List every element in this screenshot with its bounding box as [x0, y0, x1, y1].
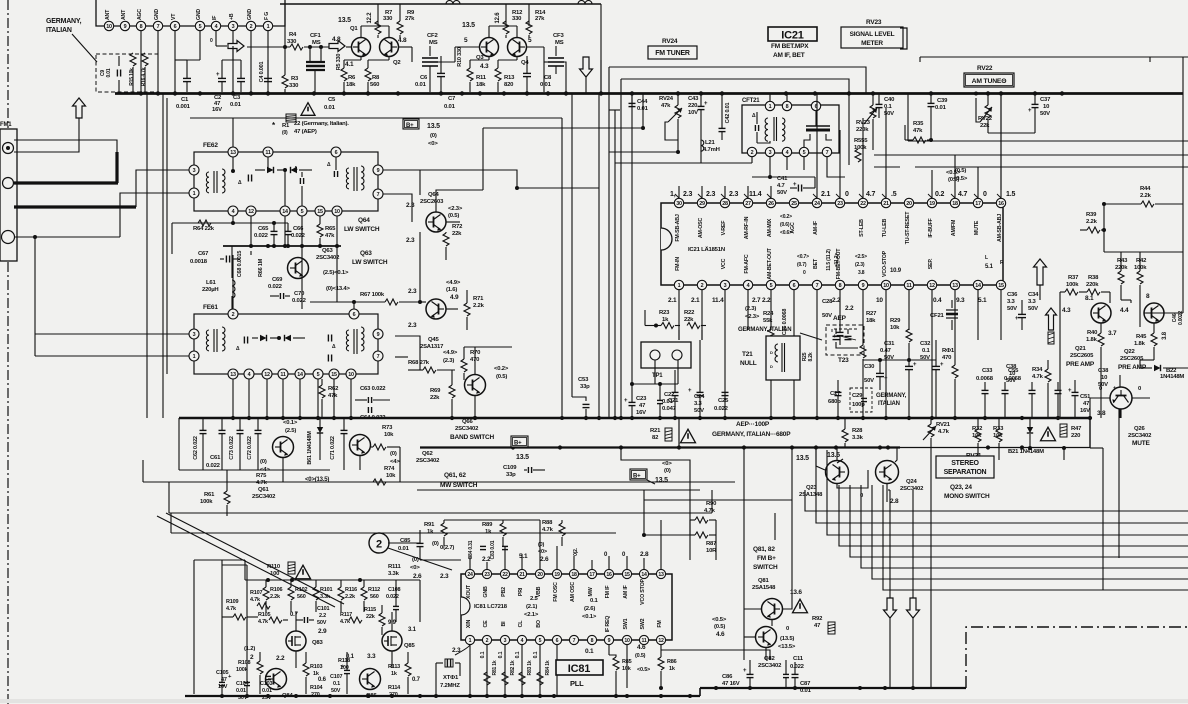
svg-text:2.2: 2.2	[845, 305, 854, 312]
svg-text:13: 13	[230, 150, 236, 156]
svg-text:R1: R1	[282, 123, 290, 129]
wire q22 emitter to bus	[1140, 359, 1154, 361]
svg-text:R24: R24	[763, 311, 774, 317]
warning triangle R92	[793, 599, 808, 613]
svg-text:R28: R28	[852, 428, 863, 434]
wire CFT21 pins up to bus	[769, 94, 771, 102]
svg-text:19: 19	[929, 201, 935, 207]
wire pin7 GND down to ground bus	[157, 31, 159, 92]
svg-text:13: 13	[658, 572, 664, 578]
svg-text:28: 28	[722, 201, 728, 207]
svg-text:680p: 680p	[828, 399, 841, 405]
svg-text:R113: R113	[388, 664, 400, 670]
svg-text:24: 24	[467, 572, 473, 578]
wire top right feed	[1149, 57, 1151, 62]
svg-text:CF1: CF1	[310, 33, 321, 39]
svg-text:C8: C8	[544, 75, 552, 81]
svg-text:(0): (0)	[430, 133, 437, 139]
svg-text:D: D	[770, 364, 773, 369]
svg-text:4.7: 4.7	[866, 191, 875, 198]
svg-text:0.1: 0.1	[498, 651, 504, 658]
svg-text:10k: 10k	[384, 432, 394, 438]
svg-text:1k: 1k	[427, 529, 434, 535]
svg-text:AM/FM: AM/FM	[951, 219, 957, 236]
svg-text:12.2: 12.2	[367, 12, 373, 24]
svg-text:4.8: 4.8	[398, 37, 407, 44]
wire CF3 output	[564, 62, 566, 92]
main bus B	[420, 446, 900, 448]
transistor Q66 band switch	[465, 375, 486, 396]
hollow arrow down B	[907, 598, 920, 618]
FE61 pin 2 top	[228, 309, 238, 319]
transistor Q63 LW switch	[288, 258, 309, 279]
svg-text:LW SWITCH: LW SWITCH	[352, 259, 388, 266]
CFT21 pin 5	[799, 147, 808, 156]
svg-text:<4.9>: <4.9>	[443, 350, 458, 356]
svg-text:SWITCH: SWITCH	[753, 564, 778, 571]
svg-text:C69: C69	[272, 277, 283, 283]
svg-text:B+: B+	[633, 474, 641, 480]
svg-text:VCC: VCC	[721, 258, 727, 269]
svg-text:100k: 100k	[1066, 282, 1079, 288]
CFT21 pin 2	[747, 147, 756, 156]
svg-text:2.5: 2.5	[530, 596, 539, 602]
svg-text:15: 15	[331, 372, 337, 378]
svg-text:9: 9	[124, 24, 127, 30]
slanted entry marks on pins	[675, 194, 679, 198]
svg-text:C44: C44	[637, 99, 648, 105]
svg-text:(2.5)<0.1>: (2.5)<0.1>	[323, 270, 349, 276]
svg-text:<0.5>: <0.5>	[946, 170, 961, 176]
svg-text:2SC3402: 2SC3402	[416, 458, 440, 464]
svg-text:2SC3402: 2SC3402	[758, 663, 782, 669]
svg-text:FM1: FM1	[0, 122, 12, 128]
svg-text:C42 0.01: C42 0.01	[725, 103, 731, 124]
svg-text:20: 20	[537, 572, 543, 578]
FE61 pin 1 left	[189, 351, 199, 361]
wires around Q45	[419, 232, 421, 302]
FE61 tuning cap	[243, 337, 245, 344]
junction dots on bus B	[511, 445, 515, 449]
svg-text:10k: 10k	[890, 325, 900, 331]
FET Q83	[286, 631, 306, 651]
svg-text:13.5: 13.5	[338, 17, 351, 24]
svg-text:7: 7	[157, 24, 160, 30]
long wires down with arrows	[889, 490, 891, 598]
svg-text:4: 4	[786, 150, 789, 156]
svg-text:0.1: 0.1	[515, 651, 521, 658]
hollow arrow down A	[884, 598, 897, 618]
svg-text:C87: C87	[800, 681, 811, 687]
R85 10k resistor	[613, 657, 619, 670]
svg-text:R92: R92	[812, 616, 823, 622]
svg-text:2: 2	[376, 539, 382, 551]
svg-text:2SA1548: 2SA1548	[752, 585, 776, 591]
wire FE62 pin9 to Q64	[383, 170, 599, 188]
coax shield outline from FM1	[14, 140, 117, 152]
svg-text:TU-LEB: TU-LEB	[882, 219, 888, 238]
svg-text:47 16V: 47 16V	[722, 681, 740, 687]
wires FE62 pins to sub bus	[232, 216, 234, 223]
svg-text:2SA1348: 2SA1348	[799, 492, 823, 498]
svg-text:50V: 50V	[1007, 306, 1017, 312]
svg-text:27k: 27k	[405, 16, 415, 22]
transistor Q24 mono switch	[876, 461, 899, 484]
svg-text:4: 4	[215, 24, 218, 30]
svg-text:11: 11	[280, 372, 286, 378]
svg-text:4.7k: 4.7k	[938, 429, 950, 435]
svg-text:2SA1317: 2SA1317	[420, 344, 444, 350]
svg-text:2SC2603: 2SC2603	[420, 199, 444, 205]
svg-text:XIN: XIN	[466, 620, 472, 629]
svg-text:Q26: Q26	[1134, 426, 1145, 432]
svg-text:Δ: Δ	[752, 113, 756, 119]
svg-text:RV23: RV23	[866, 19, 882, 26]
diode B22 1N4148M	[1154, 365, 1161, 371]
svg-text:R107: R107	[250, 590, 262, 596]
svg-text:25: 25	[791, 201, 797, 207]
svg-text:50V: 50V	[864, 378, 874, 384]
svg-text:Q84: Q84	[282, 693, 293, 699]
svg-text:R65: R65	[325, 226, 336, 232]
meter wires right side	[900, 154, 1188, 156]
svg-text:<11.2>: <11.2>	[834, 253, 840, 267]
svg-text:FE61: FE61	[203, 304, 218, 311]
transistor Q62	[350, 435, 371, 456]
svg-text:10: 10	[883, 283, 889, 289]
svg-text:22k: 22k	[452, 231, 462, 237]
wire - leader line from label to pin 10	[72, 34, 97, 62]
svg-text:16: 16	[606, 572, 612, 578]
svg-text:R83 1k: R83 1k	[527, 660, 533, 675]
top rail drop to bus right end	[600, 4, 602, 93]
svg-text:0.1: 0.1	[585, 648, 594, 655]
svg-text:<2.3>: <2.3>	[448, 206, 463, 212]
svg-text:6: 6	[793, 283, 796, 289]
svg-text:<0.1>: <0.1>	[582, 614, 597, 620]
IC81 bottom pins 1..12	[465, 635, 474, 644]
svg-text:5.1: 5.1	[519, 553, 528, 560]
svg-text:C107: C107	[330, 674, 342, 680]
wire row y=152 to RV24	[609, 151, 678, 153]
wire pin6 VT down	[174, 31, 176, 92]
svg-text:2: 2	[250, 654, 254, 661]
long vertical from bus B to Q81 base	[791, 448, 793, 598]
svg-text:1: 1	[469, 638, 472, 644]
svg-text:330: 330	[289, 83, 299, 89]
svg-text:5: 5	[528, 37, 532, 44]
svg-text:9: 9	[377, 332, 380, 338]
svg-text:C61: C61	[210, 455, 221, 461]
svg-text:CFT21: CFT21	[742, 98, 760, 104]
IC21 top pins 30..16	[674, 198, 683, 207]
wire drop from bus A to bus B	[678, 418, 680, 448]
CFT21 inner transformer	[765, 118, 768, 141]
svg-text:PLL: PLL	[570, 679, 584, 688]
svg-text:2.3: 2.3	[683, 191, 692, 198]
svg-text:10.9: 10.9	[890, 268, 902, 274]
svg-text:C4 0.001: C4 0.001	[259, 62, 265, 83]
svg-text:R29: R29	[890, 318, 901, 324]
svg-text:2.3: 2.3	[440, 573, 449, 580]
wires IC81 bottom pins down to bus	[469, 645, 471, 696]
svg-text:18k: 18k	[346, 82, 356, 88]
svg-text:C11: C11	[793, 656, 804, 662]
svg-text:C68 0.0015: C68 0.0015	[237, 251, 243, 278]
transistor Q61	[273, 437, 294, 458]
svg-text:4.6: 4.6	[716, 631, 725, 638]
svg-text:R84 1k: R84 1k	[545, 660, 551, 675]
svg-text:30: 30	[676, 201, 682, 207]
svg-text:Q63: Q63	[322, 248, 333, 254]
svg-text:CF2: CF2	[427, 33, 438, 39]
svg-text:Q66: Q66	[462, 419, 473, 425]
top right rail	[920, 56, 1188, 58]
svg-text:B21 1N4148M: B21 1N4148M	[1008, 449, 1044, 455]
svg-text:4.4: 4.4	[1120, 307, 1129, 314]
svg-text:GERMANY, ITALIAN···680P: GERMANY, ITALIAN···680P	[712, 431, 791, 438]
svg-text:R108: R108	[238, 660, 250, 666]
svg-text:3.8: 3.8	[1162, 331, 1168, 340]
svg-text:50V: 50V	[317, 620, 327, 626]
svg-text:22k: 22k	[366, 614, 376, 620]
svg-text:BI: BI	[501, 621, 507, 627]
svg-text:2SC3402: 2SC3402	[252, 494, 276, 500]
IC81 LC7218 body	[461, 574, 672, 640]
junction dots on bus A	[231, 416, 235, 420]
svg-text:16V: 16V	[212, 107, 222, 113]
FE62 sub ground bus	[223, 245, 341, 247]
svg-text:50V: 50V	[777, 190, 787, 196]
svg-text:0.47: 0.47	[880, 348, 892, 354]
svg-text:2.2k: 2.2k	[1140, 193, 1152, 199]
hatched resistor icon below bus	[286, 114, 296, 122]
svg-text:220: 220	[1071, 433, 1081, 439]
svg-text:0(2.7): 0(2.7)	[440, 545, 454, 551]
svg-text:12: 12	[248, 209, 254, 215]
bottom bus	[185, 695, 700, 697]
svg-text:C86: C86	[722, 674, 733, 680]
svg-text:L: L	[985, 255, 988, 261]
svg-text:<0>: <0>	[662, 461, 672, 467]
svg-text:R67 100k: R67 100k	[360, 292, 385, 298]
svg-text:16: 16	[998, 201, 1004, 207]
wire pin10 down	[626, 645, 628, 688]
svg-text:R11: R11	[476, 75, 487, 81]
svg-text:220: 220	[688, 103, 698, 109]
svg-text:STEREO: STEREO	[951, 460, 979, 467]
FE62 tuning cap	[247, 175, 249, 182]
svg-text:R39: R39	[1086, 212, 1097, 218]
svg-text:R109: R109	[226, 599, 238, 605]
svg-text:100p: 100p	[852, 402, 865, 408]
wire long row y=79	[621, 79, 849, 94]
svg-text:0.1: 0.1	[884, 104, 893, 110]
svg-text:0.022: 0.022	[714, 406, 729, 412]
svg-text:(0.5): (0.5)	[714, 624, 725, 630]
svg-text:C23: C23	[636, 396, 647, 402]
svg-text:Q2: Q2	[393, 60, 401, 66]
FE62 block outline	[194, 152, 378, 211]
svg-text:3.3k: 3.3k	[320, 594, 331, 600]
IC21 LA1851N body	[661, 203, 1003, 285]
svg-text:4: 4	[521, 638, 524, 644]
svg-text:4: 4	[747, 283, 750, 289]
svg-text:0.01: 0.01	[230, 102, 242, 108]
svg-text:2.2: 2.2	[762, 297, 771, 304]
wire FE62 pin7 right	[383, 194, 412, 222]
svg-text:47: 47	[1083, 401, 1090, 407]
svg-text:R112: R112	[368, 587, 380, 593]
ceramic filter CFT21 block	[742, 105, 839, 153]
svg-text:R90: R90	[706, 501, 717, 507]
CFT21 pin 4	[782, 147, 791, 156]
wire rail drop to R3	[284, 4, 286, 47]
svg-text:Q24: Q24	[906, 479, 917, 485]
transistor Q2	[380, 38, 399, 57]
svg-text:0.01: 0.01	[415, 82, 427, 88]
CFT21 inner cap	[754, 125, 756, 131]
svg-text:R5 330: R5 330	[336, 54, 342, 71]
wire FE61 pins down to main bus	[232, 379, 234, 418]
FE61 block outline	[194, 314, 378, 374]
svg-text:AEP···100P: AEP···100P	[736, 421, 770, 428]
nested corner wires fan	[805, 490, 1188, 511]
svg-text:1.8k: 1.8k	[1086, 337, 1098, 343]
svg-text:MS: MS	[429, 40, 438, 46]
B+ label box lower	[511, 436, 528, 447]
svg-text:14: 14	[641, 572, 647, 578]
svg-text:L21: L21	[705, 140, 715, 146]
wire bus corner down right	[1089, 418, 1091, 448]
svg-text:R6: R6	[348, 75, 356, 81]
hollow arrow up (antenna feed)	[73, 98, 86, 118]
svg-text:(0.5): (0.5)	[948, 177, 959, 183]
svg-text:VT: VT	[171, 13, 177, 20]
transistor Q86	[360, 669, 381, 690]
svg-text:Q61, 62: Q61, 62	[444, 472, 466, 479]
svg-text:0: 0	[803, 270, 806, 276]
svg-text:0.022: 0.022	[268, 284, 283, 290]
svg-text:4.7k: 4.7k	[256, 480, 268, 486]
svg-text:2.2k: 2.2k	[473, 303, 485, 309]
svg-text:0.01: 0.01	[236, 688, 246, 694]
svg-text:22: 22	[860, 201, 866, 207]
svg-text:Δ: Δ	[236, 346, 240, 352]
svg-text:11.4: 11.4	[712, 297, 724, 304]
svg-text:R68 27k: R68 27k	[408, 360, 430, 366]
svg-text:IF-BUFF: IF-BUFF	[928, 217, 934, 237]
svg-text:<0.6>: <0.6>	[780, 230, 792, 236]
svg-text:270: 270	[311, 692, 320, 698]
svg-text:6: 6	[353, 312, 356, 318]
svg-text:2.3: 2.3	[408, 288, 417, 295]
svg-text:50V: 50V	[1006, 378, 1016, 384]
svg-text:Q23, 24: Q23, 24	[950, 484, 972, 491]
cap symbols below bus	[200, 429, 207, 431]
svg-text:21: 21	[883, 201, 889, 207]
svg-text:C84 0.31: C84 0.31	[468, 540, 474, 559]
svg-text:C36: C36	[1007, 292, 1018, 298]
svg-text:5: 5	[464, 37, 468, 44]
svg-text:5.1: 5.1	[978, 297, 987, 304]
svg-text:25V: 25V	[262, 695, 272, 701]
svg-text:PB2: PB2	[501, 587, 507, 597]
svg-text:R104: R104	[310, 685, 323, 691]
svg-text:VCO-STOP: VCO-STOP	[882, 250, 888, 277]
svg-text:R69: R69	[430, 388, 441, 394]
CFT21 pin 6	[811, 101, 820, 110]
svg-text:R4: R4	[289, 32, 297, 38]
svg-text:MW SWITCH: MW SWITCH	[440, 482, 478, 489]
svg-text:23: 23	[484, 572, 490, 578]
thick shield bar 1	[14, 181, 118, 184]
svg-text:Δ: Δ	[332, 344, 336, 350]
svg-text:5: 5	[770, 283, 773, 289]
svg-text:(0): (0)	[664, 468, 671, 474]
svg-text:MUTE: MUTE	[1132, 440, 1150, 447]
svg-text:4: 4	[248, 372, 251, 378]
warning triangle mid	[681, 429, 696, 443]
wire R22/R23 common	[644, 310, 646, 326]
svg-text:ANT: ANT	[121, 9, 127, 20]
svg-text:0.022: 0.022	[206, 463, 221, 469]
svg-text:C41: C41	[777, 176, 788, 182]
svg-text:R106: R106	[270, 587, 282, 593]
svg-text:0.022: 0.022	[292, 298, 307, 304]
wire RV22 wiper down	[988, 132, 1035, 134]
svg-text:0: 0	[983, 191, 987, 198]
svg-text:0.1: 0.1	[590, 598, 599, 604]
svg-text:IC21: IC21	[781, 30, 804, 42]
svg-text:13: 13	[230, 372, 236, 378]
wire row y=128	[483, 127, 643, 129]
svg-text:C72 0.022: C72 0.022	[247, 436, 253, 460]
transistor Q4	[508, 38, 527, 57]
svg-text:R23: R23	[659, 310, 670, 316]
svg-text:<0.2>: <0.2>	[494, 366, 509, 372]
transistor Q1	[352, 38, 371, 57]
svg-text:17: 17	[975, 201, 981, 207]
svg-text:Q61: Q61	[258, 487, 269, 493]
svg-text:8: 8	[839, 283, 842, 289]
svg-text:7: 7	[573, 638, 576, 644]
svg-text:R114: R114	[388, 685, 401, 691]
trimmer T23 core marks	[840, 336, 856, 340]
svg-text:2.9: 2.9	[318, 628, 327, 635]
svg-text:AM-RF-IN: AM-RF-IN	[744, 216, 750, 239]
wire row under bus	[178, 418, 180, 470]
svg-text:R34: R34	[1032, 367, 1043, 373]
left vertical feeds to amp	[193, 560, 195, 694]
FE62 pin 11	[263, 147, 273, 157]
svg-text:1: 1	[193, 191, 196, 197]
diag wires to lower amp	[157, 516, 335, 607]
svg-text:3.3: 3.3	[1028, 299, 1037, 305]
wire mute feed down	[1118, 409, 1120, 558]
svg-text:47: 47	[814, 623, 821, 629]
svg-text:<0.7>: <0.7>	[797, 254, 809, 260]
svg-text:47k: 47k	[328, 393, 338, 399]
svg-text:FM OSC: FM OSC	[553, 582, 559, 602]
svg-text:PRI: PRI	[518, 587, 524, 596]
IC21 bottom pin wires down	[678, 290, 680, 300]
wire pin12 loop right	[661, 650, 770, 660]
svg-text:2: 2	[701, 283, 704, 289]
svg-text:AM-MIX: AM-MIX	[767, 218, 773, 237]
svg-text:(2.1): (2.1)	[526, 604, 537, 610]
svg-text:C67: C67	[198, 251, 209, 257]
